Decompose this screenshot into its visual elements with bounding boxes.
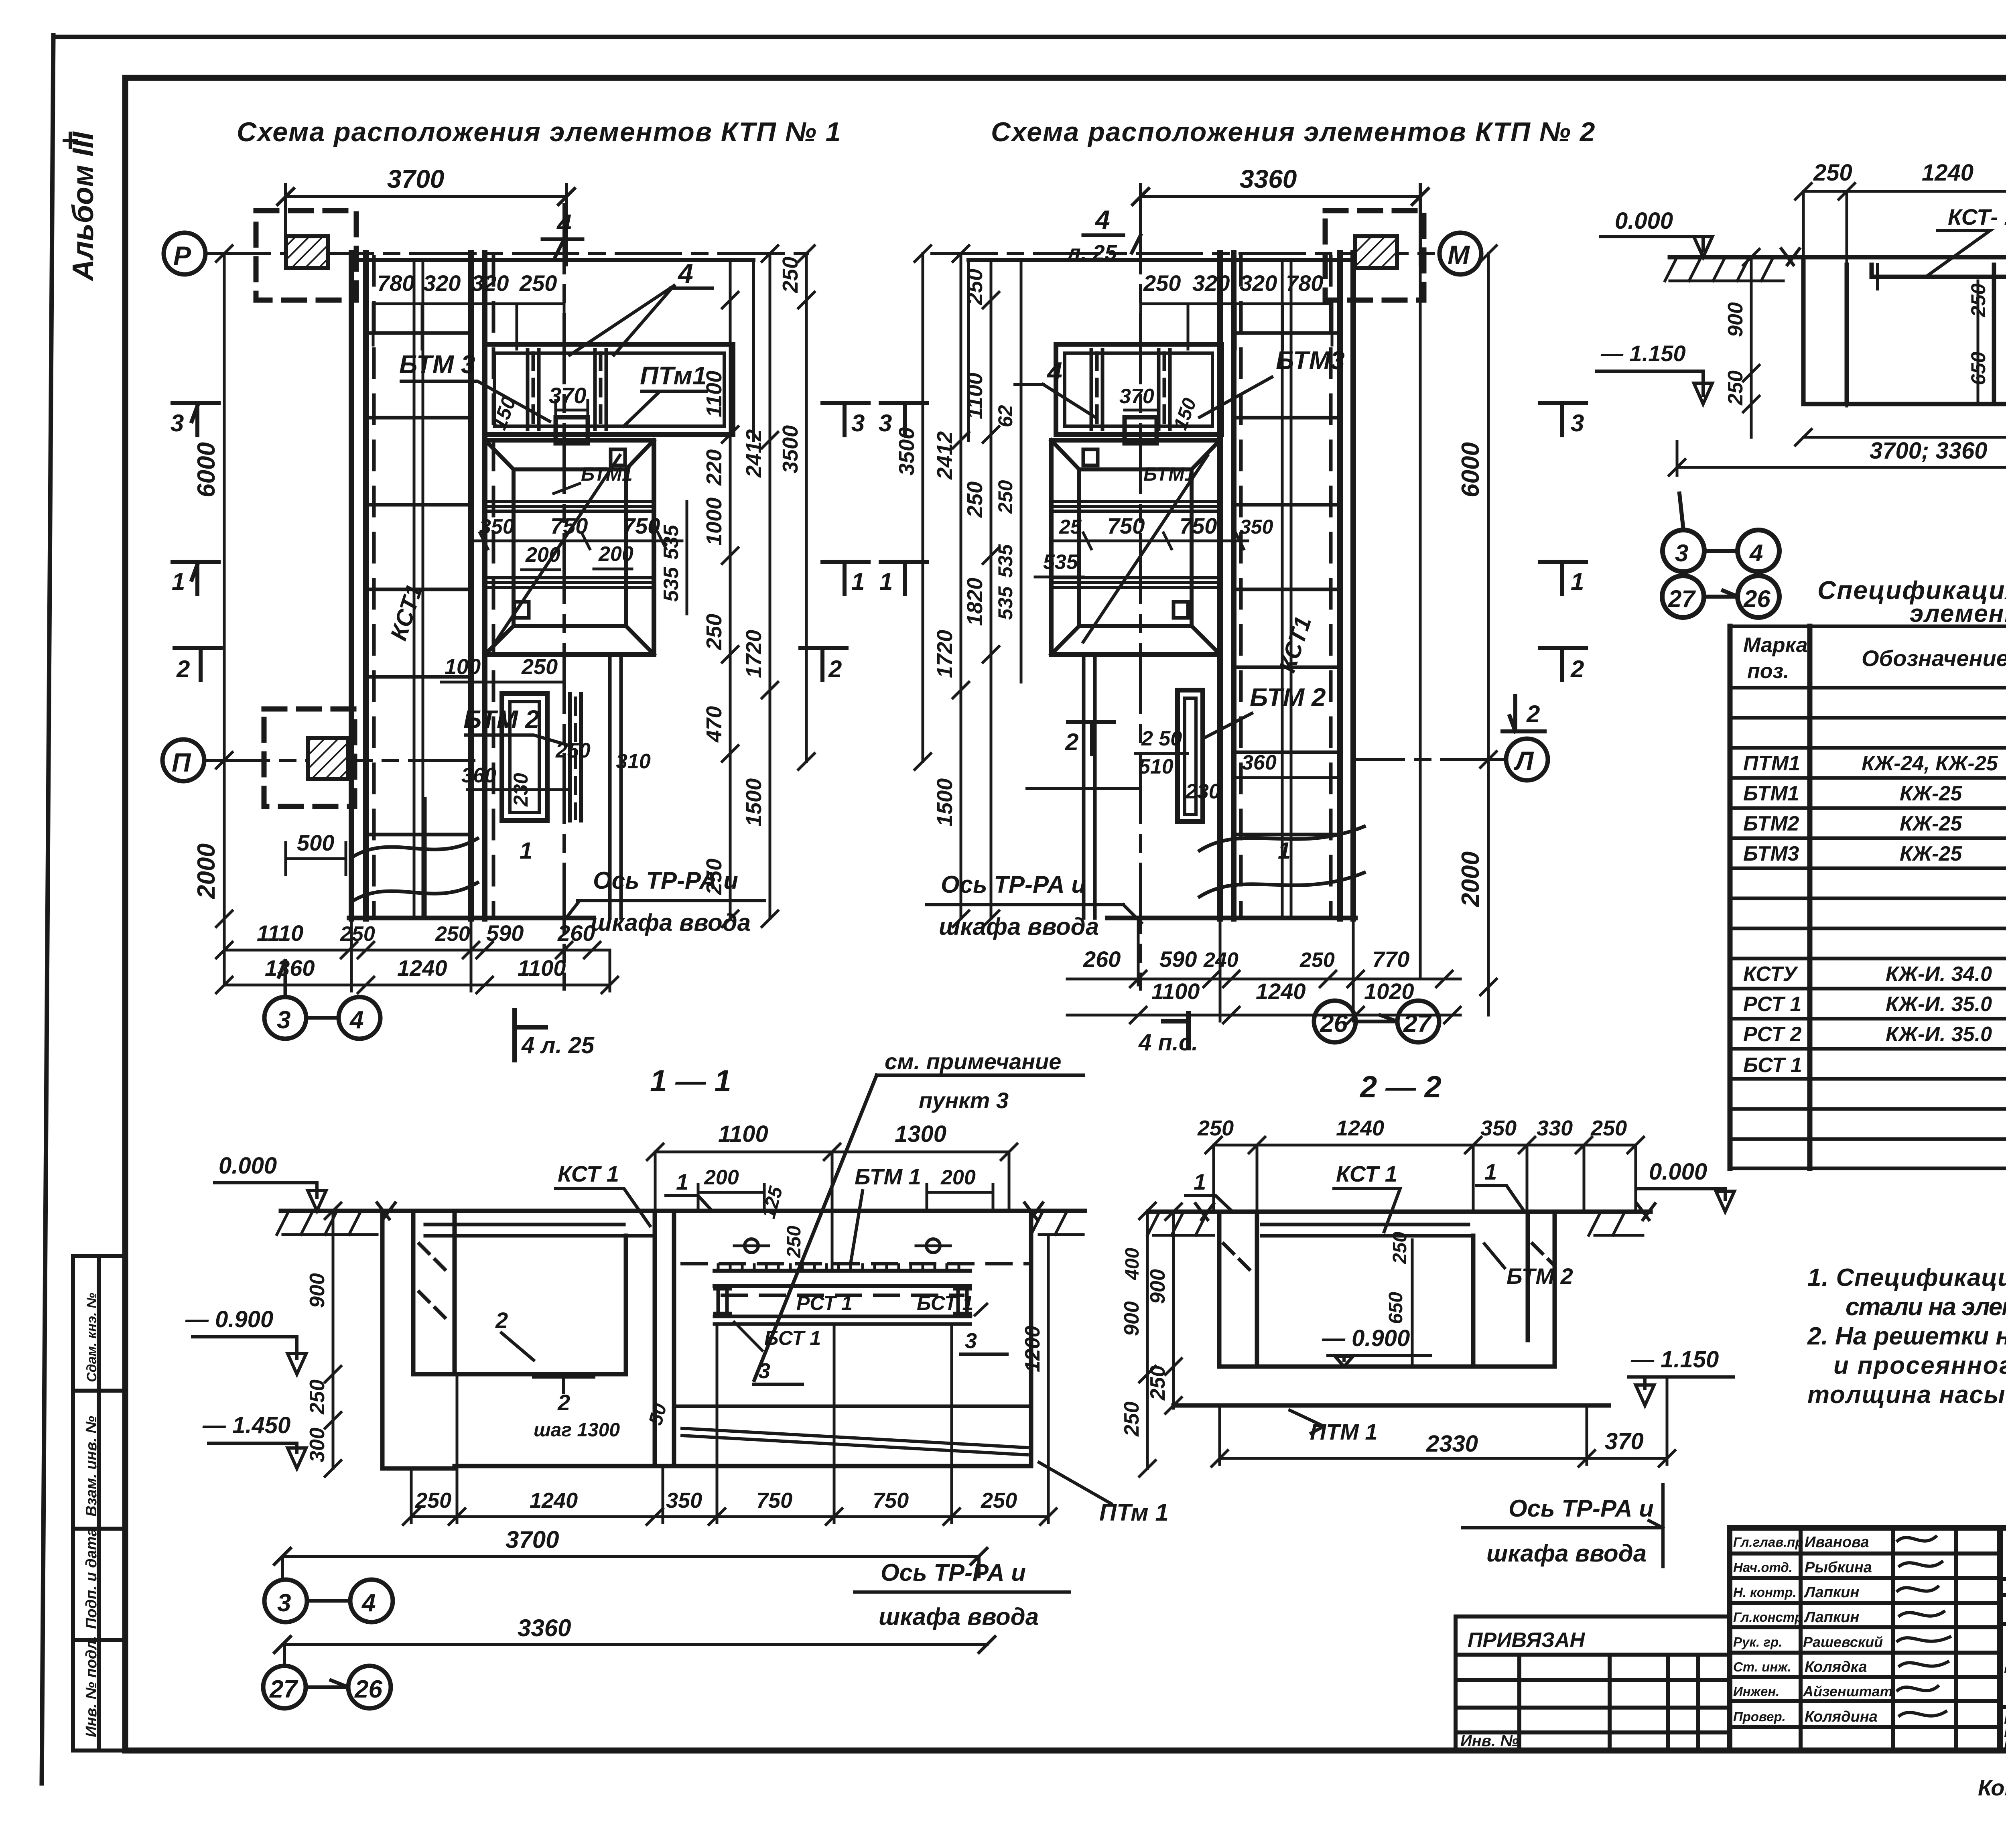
svg-text:360: 360 (461, 764, 496, 787)
KTP1 left wall (351, 253, 366, 919)
svg-text:535: 535 (1043, 550, 1078, 574)
svg-text:М: М (1448, 240, 1470, 270)
svg-text:26: 26 (1743, 585, 1770, 612)
svg-text:320: 320 (1240, 270, 1277, 296)
svg-text:Марка: Марка (1743, 634, 1808, 657)
svg-text:250: 250 (1389, 1232, 1411, 1264)
svg-text:Колядина: Колядина (1805, 1708, 1878, 1725)
svg-text:250: 250 (784, 1226, 805, 1258)
svg-text:элементов КТП 1 и КТ: элементов КТП 1 и КТП 2 (1910, 600, 2006, 628)
S22 top dims (1206, 1137, 1644, 1212)
axis M line (932, 252, 1440, 255)
KTP1 small anchor bottom (514, 602, 529, 618)
svg-text:см. примечание: см. примечание (885, 1049, 1061, 1074)
KTP1 right dim string 3 (798, 246, 814, 770)
svg-text:КЖ-И. 34.0: КЖ-И. 34.0 (1886, 963, 1992, 986)
svg-text:200: 200 (704, 1166, 739, 1189)
KTP2 beam BTM1 top (1051, 502, 1220, 511)
svg-text:250: 250 (778, 257, 802, 293)
S11 right dim string outer (1139, 1203, 1155, 1476)
S11 axis circles 27 26 (263, 1666, 306, 1708)
KTP1 diagonal leader (495, 455, 620, 642)
svg-text:750: 750 (756, 1489, 792, 1513)
axis Pi line (204, 759, 485, 762)
KTP2 upper pit outer (1056, 344, 1222, 435)
svg-text:1240: 1240 (1336, 1116, 1384, 1140)
axis L circle (1506, 739, 1548, 780)
svg-text:250: 250 (981, 1489, 1017, 1513)
KTP1 transformer bottom (308, 738, 348, 779)
svg-text:КЖ-25: КЖ-25 (1900, 842, 1962, 865)
svg-text:27: 27 (1403, 1010, 1432, 1038)
svg-text:— 0.900: — 0.900 (185, 1306, 273, 1332)
svg-text:Инв. № подл.: Инв. № подл. (83, 1636, 100, 1737)
S11 ground hatch right (1031, 1211, 1083, 1235)
svg-text:БТМ 2: БТМ 2 (463, 705, 539, 734)
svg-text:350: 350 (666, 1489, 702, 1513)
svg-text:2412: 2412 (933, 431, 957, 480)
svg-text:КСТ- 1: КСТ- 1 (1948, 204, 2006, 229)
svg-text:— 1.450: — 1.450 (202, 1412, 290, 1438)
axis M circle (1440, 233, 1481, 274)
svg-text:200: 200 (940, 1166, 976, 1189)
KTP2 section mark 1 left (881, 562, 927, 594)
KTP1 right wall (471, 253, 485, 919)
privyazan block (1456, 1616, 1730, 1751)
svg-text:250: 250 (1120, 1401, 1143, 1437)
svg-text:320: 320 (471, 270, 509, 296)
svg-text:535: 535 (994, 586, 1017, 620)
svg-text:КСТ 1: КСТ 1 (1336, 1161, 1397, 1186)
svg-text:250: 250 (1146, 1365, 1169, 1401)
svg-text:470: 470 (702, 706, 726, 743)
svg-text:КЖ-25: КЖ-25 (1900, 782, 1962, 805)
svg-text:БСТ 1: БСТ 1 (764, 1327, 821, 1349)
svg-text:Провер.: Провер. (1733, 1709, 1786, 1724)
svg-text:1200: 1200 (1021, 1326, 1044, 1372)
svg-text:Инжен.: Инжен. (1733, 1684, 1779, 1699)
svg-text:1110: 1110 (257, 920, 303, 946)
svg-text:3500: 3500 (778, 425, 802, 473)
KTP1 mid block bevels (485, 440, 654, 654)
svg-text:стали на элемент см. на л: стали на элемент см. на листе 25 (1846, 1293, 2006, 1321)
svg-text:900: 900 (1120, 1301, 1143, 1336)
svg-text:4: 4 (361, 1589, 376, 1617)
S33 left dim 900 250 (1743, 249, 1759, 437)
KTP2 pit opening 370 (1125, 417, 1157, 443)
KTP1 beam BTM1 top (485, 502, 654, 511)
svg-text:62: 62 (994, 405, 1017, 427)
svg-text:1: 1 (1571, 568, 1584, 595)
svg-text:Инв. №: Инв. № (1460, 1732, 1519, 1750)
S22 left dim string (1165, 1204, 1182, 1413)
svg-text:Обозначение: Обозначение (1862, 646, 2006, 671)
S33 bottom dim 2590 570 (1795, 429, 2006, 445)
svg-text:250: 250 (1197, 1116, 1234, 1140)
svg-text:4: 4 (556, 209, 572, 238)
KTP2 mark 4 p.s. (1163, 1013, 1188, 1048)
svg-text:3360: 3360 (1240, 164, 1297, 193)
S22 ground hatch left (1147, 1212, 1214, 1235)
svg-text:650: 650 (1385, 1292, 1407, 1324)
svg-text:25: 25 (1059, 516, 1082, 538)
svg-text:1: 1 (676, 1169, 688, 1194)
svg-text:1: 1 (879, 568, 893, 595)
S11 mid wall (655, 1211, 674, 1466)
S22 pit walls (1219, 1212, 1555, 1367)
S33 cover KCT1 slab (1878, 265, 2006, 289)
svg-text:ПРИВЯЗАН: ПРИВЯЗАН (1468, 1629, 1586, 1652)
svg-text:900: 900 (1724, 302, 1747, 337)
svg-text:250: 250 (1299, 948, 1335, 972)
svg-text:3: 3 (277, 1589, 291, 1617)
KTP1 section mark 1 right (822, 562, 869, 594)
svg-text:шкафа ввода: шкафа ввода (1486, 1540, 1647, 1567)
svg-text:БТМ1: БТМ1 (1143, 464, 1195, 485)
svg-text:Ось ТР-РА и: Ось ТР-РА и (881, 1559, 1026, 1586)
svg-text:Копировал Вед: Копировал Вед (1978, 1775, 2006, 1800)
KTP2 mid block bevels (1051, 440, 1220, 654)
svg-text:900: 900 (1146, 1269, 1169, 1304)
S11 gravel slope (682, 1428, 1027, 1455)
KTP2 beam strip left (1091, 350, 1102, 429)
svg-text:— 0.900: — 0.900 (1322, 1325, 1410, 1351)
svg-text:230: 230 (1185, 780, 1220, 803)
svg-text:Айзенштат: Айзенштат (1803, 1683, 1893, 1700)
signature squiggles (1898, 1537, 1950, 1716)
svg-text:2: 2 (828, 656, 842, 682)
KTP2 dashed box top (1325, 211, 1424, 300)
svg-text:1020: 1020 (1364, 979, 1414, 1004)
title block outer (1730, 1528, 2006, 1751)
KTP1 dashed box top (256, 211, 356, 300)
S22 ground line (1149, 1210, 1651, 1214)
svg-text:250: 250 (519, 270, 557, 296)
KTP2 section mark 2 left (1068, 722, 1114, 754)
S33 axis circle 3 (1663, 530, 1704, 572)
svg-text:350: 350 (479, 515, 514, 538)
S33 ground line (1670, 255, 2006, 260)
svg-text:2: 2 (176, 656, 190, 682)
axis P circle (164, 233, 205, 274)
KTP1 dim 370 (556, 400, 588, 417)
svg-text:590: 590 (1159, 946, 1197, 972)
KTP1 beam BTM2 strip (570, 694, 581, 820)
svg-text:350: 350 (1240, 516, 1273, 538)
svg-text:БТМ3: БТМ3 (1276, 346, 1345, 375)
svg-text:250: 250 (1590, 1116, 1627, 1140)
svg-text:0.000: 0.000 (1649, 1159, 1707, 1185)
svg-text:2000: 2000 (1457, 851, 1484, 907)
S11 ground line (281, 1209, 1085, 1213)
S11 break marks (377, 1203, 1043, 1219)
svg-text:3: 3 (758, 1359, 770, 1383)
KTP2 wall axis dashed left (1239, 257, 1243, 917)
svg-text:КСТ 1: КСТ 1 (558, 1161, 619, 1186)
svg-text:2 — 2: 2 — 2 (1359, 1070, 1442, 1104)
KTP2 dim3360 extension (1419, 265, 1422, 979)
svg-text:250: 250 (521, 655, 558, 679)
svg-text:БТМ 1: БТМ 1 (855, 1164, 921, 1189)
S11 left pit (382, 1211, 626, 1468)
svg-text:2. На решетки насыпать с: 2. На решетки насыпать слой промытого (1807, 1322, 2006, 1350)
svg-text:370: 370 (1119, 385, 1154, 408)
svg-text:3: 3 (1675, 540, 1688, 567)
KTP1 callout 1 wavy (353, 839, 477, 901)
svg-text:П: П (172, 747, 191, 777)
svg-text:3: 3 (879, 410, 892, 437)
KTP1 section mark 3 right (822, 403, 869, 435)
svg-text:2000: 2000 (193, 843, 220, 899)
svg-text:6000: 6000 (1457, 442, 1484, 498)
S22 wall hatch dashes (1224, 1244, 1553, 1274)
svg-text:4: 4 (1749, 540, 1763, 567)
KTP2 axis line inner (1027, 787, 1141, 790)
svg-text:250: 250 (963, 269, 987, 305)
svg-text:3: 3 (277, 1006, 290, 1034)
svg-text:500: 500 (297, 830, 334, 855)
svg-text:поз.: поз. (1747, 660, 1789, 683)
svg-text:250: 250 (963, 481, 987, 518)
svg-text:6000: 6000 (193, 442, 220, 498)
outer sheet border left (42, 35, 53, 1783)
KTP1 plan bottom edge (349, 916, 594, 920)
svg-text:БСТ 1: БСТ 1 (917, 1292, 973, 1314)
KTP2 plan top edge (968, 258, 1353, 262)
S11 left dim string (325, 1203, 341, 1476)
svg-text:1: 1 (1194, 1169, 1206, 1194)
svg-text:220: 220 (702, 449, 726, 486)
axis Pi circle (162, 739, 204, 781)
svg-text:780: 780 (377, 270, 414, 296)
KTP1 upper pit inner (494, 353, 724, 426)
S11 right dim string inner (1047, 1236, 1050, 1468)
svg-text:250: 250 (702, 614, 726, 650)
S11 wall hatch dashes (419, 1244, 449, 1322)
KTP1 right dim string 1 (722, 260, 738, 927)
svg-text:Лапкин: Лапкин (1803, 1609, 1859, 1626)
KTP2 section mark 2 right (1540, 648, 1586, 680)
KTP1 right margin line (752, 260, 755, 440)
S22 bottom slab (1174, 1403, 1609, 1408)
KTP1 beam strip right (595, 350, 606, 429)
S11 bottom dims (403, 1324, 1056, 1525)
svg-text:320: 320 (423, 270, 461, 296)
KTP2 right dim line 6000/2000 (1480, 246, 1496, 1015)
svg-text:27: 27 (269, 1675, 298, 1703)
S11 ground hatch left (277, 1211, 377, 1235)
svg-text:250: 250 (415, 1489, 451, 1513)
KTP2 floor slabs (1234, 333, 1340, 835)
svg-text:1. Спецификацию и ведомость: 1. Спецификацию и ведомость расхода (1807, 1264, 2006, 1292)
svg-text:шкафа ввода: шкафа ввода (879, 1603, 1039, 1630)
KTP1 beam BTM1 bottom (485, 578, 654, 587)
svg-text:4 л. 25: 4 л. 25 (521, 1032, 595, 1058)
svg-text:26: 26 (1320, 1010, 1348, 1038)
svg-text:0.000: 0.000 (219, 1153, 277, 1179)
svg-text:2: 2 (1065, 729, 1078, 755)
KTP1 transformer top (286, 236, 328, 268)
KTP2 plan bottom edge (1107, 916, 1355, 920)
svg-text:2 50: 2 50 (1141, 727, 1182, 750)
svg-text:1240: 1240 (1256, 979, 1306, 1004)
svg-text:3: 3 (965, 1329, 977, 1353)
svg-text:1 — 1: 1 — 1 (650, 1064, 731, 1098)
KTP1 pit opening 370 (556, 417, 588, 443)
svg-text:РСТ 1: РСТ 1 (1743, 993, 1801, 1016)
KTP2 section mark 1 right (1540, 562, 1586, 594)
svg-text:260: 260 (1083, 946, 1121, 972)
svg-text:3700: 3700 (387, 164, 444, 193)
svg-text:Ось ТР-РА и: Ось ТР-РА и (941, 871, 1086, 898)
svg-text:2: 2 (1526, 701, 1540, 727)
S22 break marks (1196, 1204, 1655, 1220)
svg-text:Колядка: Колядка (1805, 1659, 1867, 1675)
svg-text:1500: 1500 (742, 778, 766, 827)
svg-text:БТМ3: БТМ3 (1743, 842, 1799, 865)
svg-text:2412: 2412 (742, 429, 766, 478)
svg-text:1360: 1360 (265, 955, 315, 981)
svg-text:1820: 1820 (963, 578, 987, 626)
svg-text:ПТМ1: ПТМ1 (1743, 752, 1800, 775)
KTP1 beam strip left (528, 350, 539, 429)
svg-text:1720: 1720 (742, 630, 766, 678)
svg-text:200: 200 (598, 542, 633, 566)
S22 bottom dims 2330 370 (1212, 1377, 1675, 1466)
svg-text:4: 4 (677, 258, 693, 289)
KTP1 plan top edge (351, 258, 753, 262)
svg-text:Подп. и дата: Подп. и дата (83, 1528, 100, 1629)
svg-text:3360: 3360 (518, 1614, 571, 1641)
svg-text:370: 370 (1605, 1428, 1644, 1454)
svg-text:— 1.150: — 1.150 (1630, 1346, 1719, 1373)
svg-text:1720: 1720 (933, 630, 957, 678)
svg-text:КЖ-И. 35.0: КЖ-И. 35.0 (1886, 993, 1992, 1016)
svg-text:Схема расположения элементов: Схема расположения элементов КТП № 2 (991, 117, 1596, 147)
S11 bottom slab (382, 1211, 1031, 1468)
left stamp box (73, 1256, 125, 1751)
svg-text:КЖ-24, КЖ-25: КЖ-24, КЖ-25 (1862, 752, 1998, 775)
S33 ground hatch left (1665, 257, 1783, 281)
S33 ground break marks (1781, 249, 2006, 265)
S11 pit cover slab (425, 1225, 655, 1236)
S11 channel BCT1 right (955, 1286, 970, 1316)
KTP1 cover edge lines (414, 260, 423, 918)
KTP2 left dim string 3 (983, 260, 999, 927)
svg-text:положения элементов: положения элементов (2004, 1736, 2006, 1752)
svg-text:1000: 1000 (702, 498, 726, 546)
svg-text:Ось ТР-РА и: Ось ТР-РА и (593, 867, 738, 894)
svg-text:ПТм1: ПТм1 (640, 361, 707, 390)
svg-text:пункт 3: пункт 3 (919, 1088, 1009, 1113)
svg-text:1: 1 (1278, 838, 1291, 864)
svg-text:750: 750 (873, 1489, 909, 1513)
svg-text:1240: 1240 (397, 955, 447, 981)
S33 bottom dim 3700 3360 (1669, 441, 2006, 475)
KTP2 mid block outer (1051, 440, 1220, 654)
KTP2 beam BTM1 bottom (1051, 578, 1220, 587)
KTP1 dim 3700 (278, 185, 575, 265)
svg-text:250: 250 (1813, 160, 1852, 186)
svg-text:Альбом III: Альбом III (66, 131, 99, 282)
svg-text:Ось ТР-РА и: Ось ТР-РА и (1509, 1495, 1654, 1522)
S11 grate RST1 (715, 1271, 970, 1286)
KTP2 right wall (1340, 253, 1353, 919)
KTP2 diagonal leader (1083, 455, 1208, 642)
KTP2 section mark 3 left (881, 403, 927, 435)
svg-text:2330: 2330 (1426, 1431, 1478, 1457)
KTP1 small anchor top (611, 449, 625, 465)
svg-text:3: 3 (851, 410, 865, 437)
KTP1 upper pit outer (485, 344, 733, 435)
S33 axis circle 26 (1738, 576, 1779, 617)
svg-text:250: 250 (555, 739, 591, 762)
svg-text:3: 3 (1571, 410, 1584, 437)
KTP1 section mark 1 left (173, 562, 219, 594)
KTP2 left dim string 4 (1020, 260, 1023, 682)
svg-text:Взам. инв. №: Взам. инв. № (83, 1416, 100, 1517)
S11 grate teeth (718, 1265, 959, 1271)
svg-text:0.000: 0.000 (1615, 208, 1673, 234)
svg-text:4: 4 (349, 1006, 363, 1034)
svg-text:БТМ 3: БТМ 3 (399, 350, 475, 379)
KTP1 left wall axis dashed (372, 257, 376, 917)
svg-text:БСТ 1: БСТ 1 (1743, 1054, 1802, 1077)
svg-text:2: 2 (495, 1308, 508, 1333)
svg-text:1100: 1100 (702, 371, 726, 417)
svg-text:250: 250 (1724, 370, 1747, 406)
S22 ground hatch right (1589, 1212, 1643, 1235)
KTP2 beam strip right (1159, 350, 1170, 429)
svg-text:250: 250 (994, 480, 1017, 514)
KTP2 callout 1 wavy (1200, 827, 1364, 897)
svg-text:Иванова: Иванова (1805, 1534, 1869, 1551)
svg-text:1100: 1100 (963, 373, 987, 419)
KTP2 canal walls lower (1084, 658, 1095, 918)
svg-text:360: 360 (1242, 751, 1277, 774)
svg-text:250: 250 (306, 1379, 329, 1415)
KTP1 section mark 3 left (173, 403, 219, 435)
axis P line (205, 252, 807, 255)
svg-text:100: 100 (445, 655, 481, 679)
svg-text:Сдам. кнэ. №: Сдам. кнэ. № (84, 1293, 99, 1382)
KTP2 wall axis dashed right (1329, 257, 1333, 917)
KTP1 left dim line 6000/2000 (216, 246, 232, 985)
KTP1 section mark 2 left (175, 648, 221, 680)
svg-text:330: 330 (1537, 1116, 1573, 1140)
svg-text:1100: 1100 (718, 1121, 768, 1147)
svg-text:1100: 1100 (518, 955, 566, 981)
svg-text:370: 370 (549, 383, 586, 408)
KTP1 lower pit (502, 694, 547, 820)
svg-text:535: 535 (660, 567, 683, 602)
KTP1 canal walls lower (610, 658, 621, 918)
svg-text:510: 510 (1139, 755, 1174, 778)
svg-text:26: 26 (354, 1675, 382, 1703)
svg-text:1240: 1240 (530, 1489, 578, 1513)
svg-text:БТМ 2: БТМ 2 (1250, 683, 1326, 712)
KTP2 mid block inner (1079, 469, 1192, 626)
svg-text:— 1.150: — 1.150 (1600, 341, 1686, 366)
svg-text:Гл.глав.пр: Гл.глав.пр (1733, 1535, 1803, 1549)
svg-text:1500: 1500 (933, 778, 957, 827)
KTP2 dim 370 (1125, 409, 1157, 412)
svg-text:БТМ1: БТМ1 (1743, 782, 1799, 805)
KTP2 transformer top (1355, 236, 1397, 268)
svg-text:4: 4 (1046, 357, 1062, 387)
KTP2 upper pit inner (1065, 353, 1212, 426)
S11 channel BCT1 left (715, 1286, 730, 1316)
